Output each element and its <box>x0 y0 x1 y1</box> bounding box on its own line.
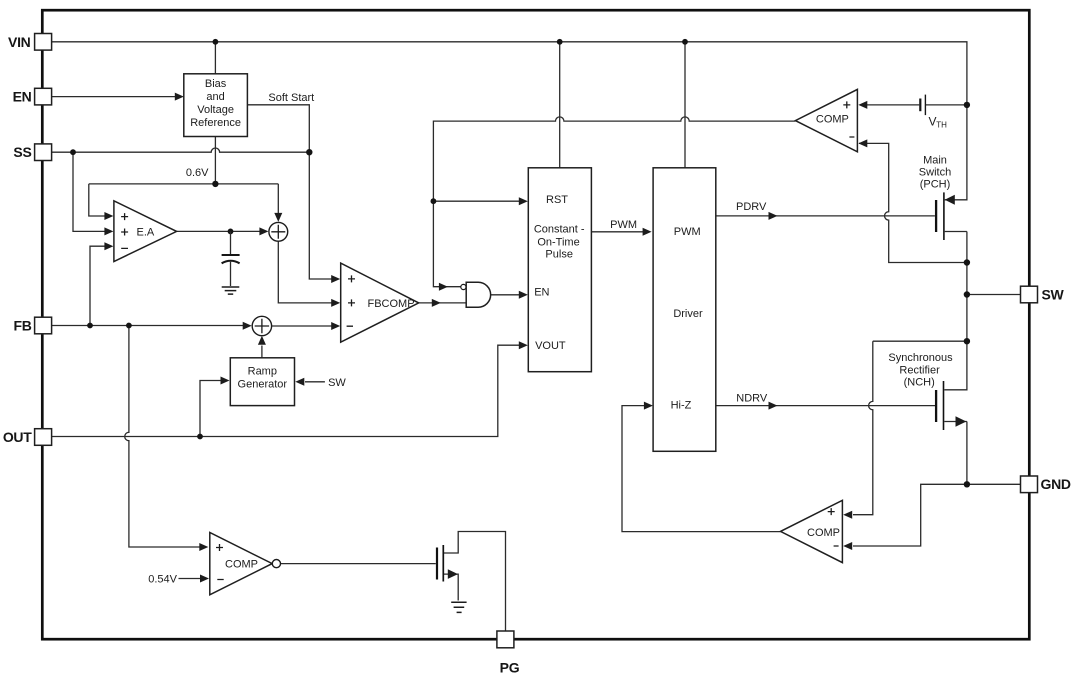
wire VTH battery branch: COMP1 + input <box>858 101 967 109</box>
svg-text:Pulse: Pulse <box>545 248 573 260</box>
wire branch to RST input <box>433 197 527 205</box>
pin PG <box>497 631 520 675</box>
wire NDRV line to NCH gate <box>716 402 935 410</box>
junction SS branch <box>70 149 76 155</box>
svg-text:VOUT: VOUT <box>535 340 566 352</box>
pin GND <box>1021 476 1071 493</box>
svg-text:Soft Start: Soft Start <box>268 92 314 104</box>
capacitor compensation C1 <box>222 231 240 286</box>
comparator COMP2 (bottom right) <box>781 500 843 562</box>
junction 0.6V node <box>212 181 218 187</box>
label Soft Start <box>268 92 314 104</box>
label SW (ramp input) <box>328 377 346 389</box>
output bubble of COMP3 <box>272 560 280 568</box>
svg-text:Generator: Generator <box>238 379 288 391</box>
svg-text:PDRV: PDRV <box>736 201 767 213</box>
wire SS pin line with hop over 0.6V line <box>52 148 309 152</box>
comparator COMP1 (top right) <box>795 89 857 151</box>
junction VIN/Bias <box>213 39 219 45</box>
wire AND gate output to EN of one-shot <box>491 291 528 299</box>
pin OUT <box>3 429 52 446</box>
wire SW net vertical: VTH node down through PCH to SW pin, NCH, GND <box>873 105 1021 484</box>
label 0.6V <box>186 167 209 179</box>
summing node S2 <box>252 316 271 335</box>
svg-text:Reference: Reference <box>190 117 241 129</box>
pin SW <box>1021 286 1065 303</box>
wire low-right COMP output to Hi-Z input <box>622 402 781 532</box>
svg-text:PWM: PWM <box>674 226 701 238</box>
inverting bubble on AND gate top input <box>461 284 466 289</box>
svg-text:and: and <box>206 91 224 103</box>
wire FB pin to summing node S2 <box>52 322 252 330</box>
svg-text:(PCH): (PCH) <box>920 179 951 191</box>
wire 0.6V net: Bias bottom down, horizontal rail, to E.A. + input and to summing node S1 <box>89 137 282 222</box>
svg-text:PG: PG <box>500 659 520 675</box>
ground symbol under PG MOSFET <box>451 602 466 612</box>
pin SS <box>13 144 51 161</box>
svg-text:TH: TH <box>936 121 947 130</box>
wire SW-sense branch down to low-right COMP + input (hops over NDRV) <box>843 341 873 519</box>
pin EN <box>13 88 52 105</box>
wire SS branch down to E.A. second + input <box>73 152 113 235</box>
arrow on NCH source arm pointing outward <box>956 416 967 427</box>
svg-text:Constant -: Constant - <box>534 224 585 236</box>
svg-text:Switch: Switch <box>919 167 951 179</box>
comparator COMP3 (bottom left, power good) <box>210 533 272 595</box>
junction SW sense branch <box>964 338 970 344</box>
junction VIN/RST <box>557 39 563 45</box>
wire FB branch down to low COMP + input (hops over OUT line) <box>125 326 209 552</box>
wire Ramp Generator up to summing node S2 <box>258 336 266 358</box>
pin FB <box>13 317 51 334</box>
wire VIN to RST box top <box>559 42 561 168</box>
svg-text:0.6V: 0.6V <box>186 167 209 179</box>
label VTH <box>929 115 948 130</box>
wire Soft Start: Bias box right, over to SS net junction, down to FBCOMP + input <box>247 105 340 283</box>
wire E.A. output to summing node S1 <box>177 227 269 235</box>
junction FB / low COMP branch <box>126 323 132 329</box>
battery VTH plates <box>920 95 925 116</box>
wire SW label to Ramp Generator <box>295 378 325 386</box>
junction OUT / ramp branch <box>197 434 203 440</box>
wire PDRV line to PCH gate <box>716 212 935 220</box>
one-shot block RST / Constant On-Time Pulse <box>528 168 591 372</box>
arrowhead on AND top input <box>439 283 448 291</box>
junction SoftStart/SS <box>306 149 312 155</box>
wire low COMP output bubble to PG MOSFET gate <box>281 563 436 565</box>
svg-text:0.54V: 0.54V <box>148 574 177 586</box>
pin VIN <box>8 34 52 51</box>
wire 0.54V to low COMP minus input <box>179 575 210 583</box>
svg-text:Rectifier: Rectifier <box>899 364 940 376</box>
svg-text:Voltage: Voltage <box>197 104 234 116</box>
svg-text:FBCOMP: FBCOMP <box>368 298 415 310</box>
wire COMP1 minus input path from SW node (hops over PDRV) <box>858 139 967 262</box>
svg-text:COMP: COMP <box>807 527 840 539</box>
svg-text:COMP: COMP <box>816 113 849 125</box>
svg-text:Main: Main <box>923 155 947 167</box>
svg-text:Driver: Driver <box>673 308 703 320</box>
svg-text:Hi-Z: Hi-Z <box>671 400 692 412</box>
wire PG MOSFET source to ground <box>443 569 458 600</box>
wire VIN rail (pin VIN right along y=41.8 then down to VTH node) <box>52 42 967 105</box>
svg-text:E.A: E.A <box>137 226 155 238</box>
svg-text:COMP: COMP <box>225 558 258 570</box>
summing node S1 <box>269 222 288 241</box>
wire EN pin to Bias box <box>52 93 184 101</box>
svg-text:SS: SS <box>13 144 31 160</box>
arrow on PCH source arm pointing into channel <box>945 195 955 205</box>
wire PG MOSFET drain up over to PG pin <box>443 532 505 632</box>
svg-text:(NCH): (NCH) <box>904 376 935 388</box>
junction VTH node <box>964 102 970 108</box>
junction PCH drain / COMP1 minus <box>964 259 970 265</box>
junction COMP1 out / RST branch <box>431 198 437 204</box>
block Bias and Voltage Reference <box>184 74 248 137</box>
ground under capacitor <box>222 287 240 294</box>
svg-text:SW: SW <box>328 377 346 389</box>
svg-text:Synchronous: Synchronous <box>888 352 953 364</box>
wire COMP1 output to AND gate / RST input, with hops <box>433 117 795 287</box>
wire summing node S2 to FBCOMP minus input <box>272 322 341 330</box>
label PDRV <box>736 201 767 213</box>
svg-text:EN: EN <box>534 287 549 299</box>
svg-text:On-Time: On-Time <box>537 236 579 248</box>
label 0.54V <box>148 574 177 586</box>
comparator FBCOMP <box>341 263 419 342</box>
transistor PG MOSFET <box>437 545 443 582</box>
svg-text:EN: EN <box>13 89 32 105</box>
wire VIN to PWM Driver box top <box>684 42 686 168</box>
label PWM (link) <box>610 219 637 231</box>
wire summing node S1 down to FBCOMP second + input <box>278 241 340 307</box>
transistor Synchronous Rectifier NCH <box>936 381 943 430</box>
wire VIN to Bias box top <box>214 42 216 74</box>
junction GND node <box>964 481 970 487</box>
label Main Switch (PCH) <box>919 155 951 191</box>
block PWM Driver Hi-Z <box>653 168 716 452</box>
wire OUT branch to Ramp Generator left input <box>200 377 230 437</box>
svg-text:NDRV: NDRV <box>736 392 768 404</box>
junction SW pin node <box>964 291 970 297</box>
wire E.A. minus input from FB net <box>90 242 113 325</box>
wire FBCOMP output to AND gate bottom input <box>419 299 467 307</box>
svg-text:GND: GND <box>1041 476 1071 492</box>
wire OUT pin line to VOUT input of one-shot <box>52 341 528 436</box>
svg-text:VIN: VIN <box>8 34 31 50</box>
svg-text:Ramp: Ramp <box>248 366 277 378</box>
svg-text:Bias: Bias <box>205 78 227 90</box>
svg-text:RST: RST <box>546 194 568 206</box>
transistor Main Switch PCH <box>936 192 944 240</box>
label NDRV <box>736 392 768 404</box>
wire GND branch to low-right COMP minus input <box>843 484 967 550</box>
wire PWM link between boxes <box>591 228 651 236</box>
svg-text:OUT: OUT <box>3 429 32 445</box>
svg-text:PWM: PWM <box>610 219 637 231</box>
op-amp E.A. error amplifier <box>114 201 177 262</box>
junction E.A. output / compensation cap <box>228 229 234 235</box>
label Synchronous Rectifier (NCH) <box>888 352 953 388</box>
block Ramp Generator <box>230 358 294 406</box>
AND gate <box>466 282 490 307</box>
junction FB / E.A. minus <box>87 323 93 329</box>
svg-text:FB: FB <box>13 317 31 333</box>
junction VIN/PWM <box>682 39 688 45</box>
svg-text:SW: SW <box>1042 286 1065 302</box>
